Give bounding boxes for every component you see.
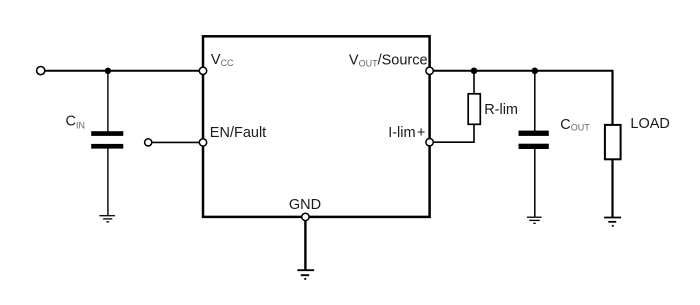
svg-text:I-lim: I-lim <box>388 125 415 141</box>
wire output rail <box>430 70 613 72</box>
svg-text:+: + <box>417 125 425 141</box>
pin GND circle <box>302 213 309 220</box>
svg-text:R-lim: R-lim <box>484 102 518 118</box>
pin Vcc circle <box>199 67 206 74</box>
wire Cout drop upper <box>534 71 536 131</box>
svg-text:EN/Fault: EN/Fault <box>210 125 266 141</box>
wire Cout drop lower <box>534 149 536 217</box>
wire Rlim drop <box>473 71 475 95</box>
label I-lim+ <box>388 125 425 141</box>
capacitor Cout <box>519 131 549 149</box>
label LOAD <box>630 116 670 132</box>
wire EN input <box>148 141 203 143</box>
input terminal 1 <box>37 67 45 75</box>
label Vout/Source <box>349 53 428 69</box>
wire Rlim to I-lim pin <box>430 124 474 142</box>
wire input to Vcc <box>41 70 203 72</box>
resistor LOAD <box>605 125 621 159</box>
ground for GND pin <box>297 270 314 279</box>
svg-text:LOAD: LOAD <box>630 116 670 132</box>
ground for LOAD <box>604 218 621 226</box>
junction node at Cout <box>532 68 539 75</box>
label Vcc <box>211 52 234 68</box>
label Cout <box>560 117 590 133</box>
label GND <box>289 197 321 213</box>
wire Cin drop upper <box>107 71 109 132</box>
label R-lim <box>484 102 518 118</box>
wire LOAD drop lower <box>611 159 613 217</box>
pin EN circle <box>199 139 206 146</box>
ground for Cin <box>99 216 115 222</box>
input terminal 2 (EN) <box>145 139 152 146</box>
pin Vout circle <box>426 67 433 74</box>
label EN/Fault <box>210 125 266 141</box>
pin I-lim circle <box>426 139 433 146</box>
wire GND drop <box>304 217 306 270</box>
resistor R-lim <box>468 94 480 125</box>
junction node at Cin <box>105 68 111 74</box>
capacitor Cin <box>91 131 123 148</box>
svg-text:GND: GND <box>289 197 321 213</box>
junction node at Rlim <box>471 68 478 75</box>
wire Cin drop lower <box>107 148 109 216</box>
label Cin <box>66 114 85 131</box>
IC box U1 <box>203 36 430 217</box>
wire LOAD drop upper <box>611 70 613 126</box>
ground for Cout <box>527 217 542 223</box>
